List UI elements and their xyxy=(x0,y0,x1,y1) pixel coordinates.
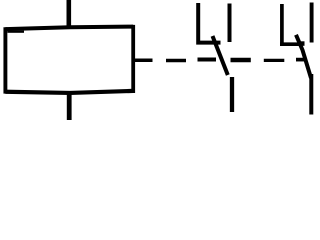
coil K1: thick ink blemish under top edge xyxy=(8,31,25,33)
contact 2: moving arm xyxy=(296,35,311,78)
contact 2: open fixed terminal xyxy=(310,3,314,43)
contact 2: common terminal wire xyxy=(309,74,313,115)
contact 2: contact touch blob at seat end xyxy=(299,41,305,46)
contact 2: fixed terminal with seat (L-shaped) xyxy=(280,4,299,45)
wire: coil bottom terminal xyxy=(67,91,72,120)
mechanical linkage (dashed line from coil to contacts) xyxy=(135,60,305,61)
contact 1: common terminal wire xyxy=(230,77,234,112)
contact 1: open fixed terminal xyxy=(228,4,232,43)
contact 1: fixed terminal with seat (L-shaped) xyxy=(196,3,220,45)
relay coil K1 (rectangle body) xyxy=(5,25,133,94)
contact 1: moving arm xyxy=(213,36,228,75)
wire: coil top terminal xyxy=(67,0,72,29)
